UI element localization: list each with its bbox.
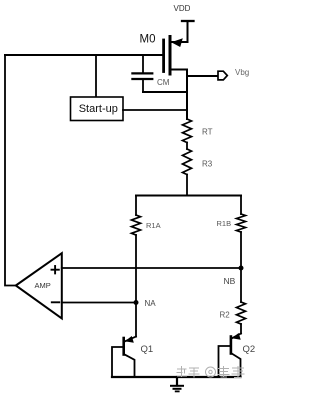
watermark: [177, 367, 244, 378]
output port Vbg: [218, 68, 249, 80]
resistor R1A: [132, 215, 161, 235]
ground: [171, 377, 183, 391]
wire cap bottom: [143, 91, 187, 93]
svg-text:R1B: R1B: [217, 219, 232, 228]
svg-text:M0: M0: [140, 34, 156, 46]
start-up block: [71, 97, 124, 121]
wire NA to Q1: [135, 303, 137, 337]
svg-text:Q1: Q1: [141, 344, 154, 355]
svg-text:R2: R2: [220, 311, 231, 320]
node NB: [224, 266, 244, 287]
svg-text:NB: NB: [224, 276, 236, 286]
svg-text:Q2: Q2: [243, 344, 256, 355]
resistor R3: [183, 149, 213, 175]
transistor Q2: [219, 333, 256, 377]
wire drain column: [186, 70, 188, 120]
node NA: [134, 299, 157, 308]
wire start-up feed: [95, 55, 97, 97]
svg-text:RT: RT: [202, 128, 213, 137]
wire Vbg: [187, 75, 218, 77]
wire rail to R1A: [135, 196, 137, 216]
svg-text:VDD: VDD: [174, 4, 191, 13]
wire feedback left: [5, 55, 16, 286]
transistor Q1: [112, 336, 153, 377]
wire minus input to NA: [62, 302, 136, 304]
svg-text:Start-up: Start-up: [79, 103, 118, 115]
wire plus input to NB: [62, 267, 241, 269]
wire gate: [5, 54, 162, 56]
resistor R2: [220, 302, 246, 324]
svg-text:R1A: R1A: [146, 221, 161, 230]
svg-text:R3: R3: [202, 160, 213, 169]
svg-text:CM: CM: [157, 78, 170, 87]
wire between RT R3: [186, 143, 188, 150]
wire rail to R1B: [240, 196, 242, 215]
svg-text:NA: NA: [145, 299, 157, 308]
wire R3 to rail: [186, 175, 188, 196]
resistor RT: [183, 119, 213, 143]
svg-text:AMP: AMP: [35, 281, 51, 290]
wire R1B to NB: [240, 232, 242, 268]
svg-text:Vbg: Vbg: [235, 68, 249, 77]
wire R2 to Q2: [240, 324, 242, 334]
resistor R1B: [217, 214, 246, 232]
op-amp U AMP: [16, 253, 62, 318]
capacitor C CM: [132, 55, 169, 92]
wire R1A to NA: [135, 235, 137, 303]
wire top rail: [136, 195, 241, 197]
wire NB to R2: [240, 268, 242, 302]
wire start-up output: [123, 109, 187, 111]
power VDD: [174, 4, 194, 42]
wire ground rail: [112, 376, 241, 378]
transistor M0: [140, 34, 188, 74]
